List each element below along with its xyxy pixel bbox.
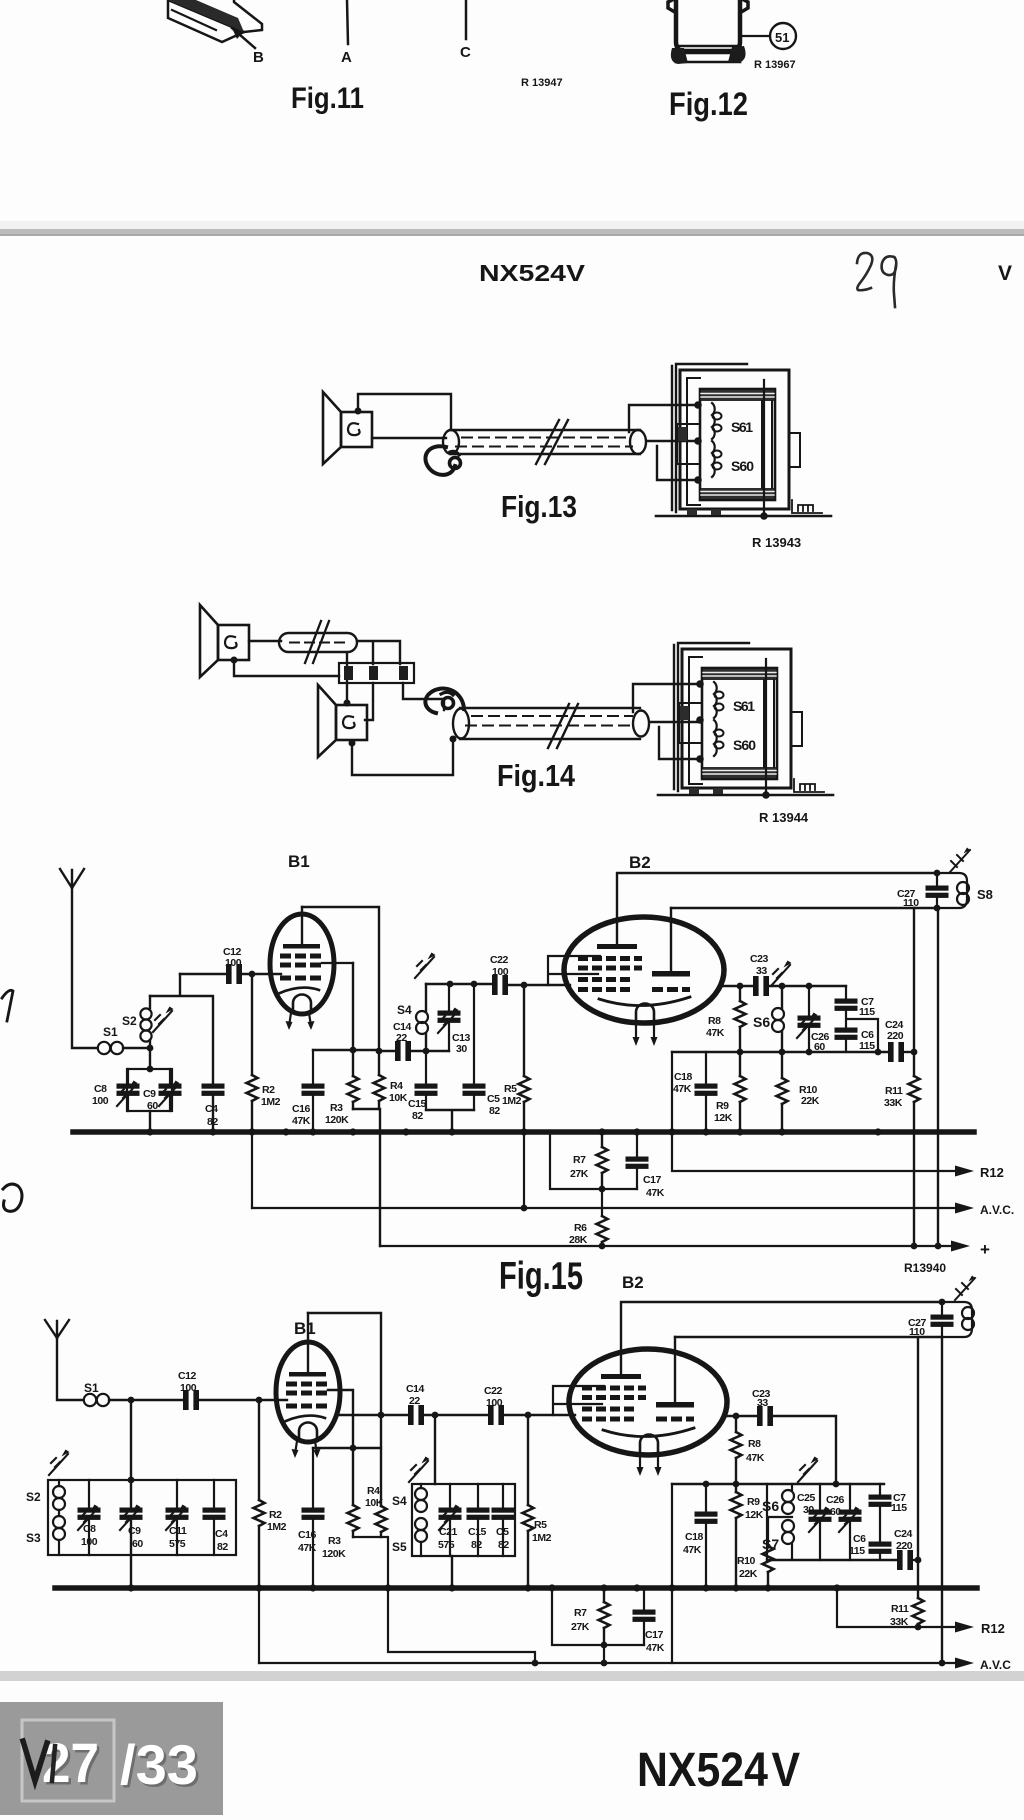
coil S4 (420, 1484, 422, 1488)
wire cable to transformer middle (647, 440, 698, 442)
svg-text:R3: R3 (330, 1102, 343, 1114)
screen rail (672, 1483, 884, 1485)
svg-text:B1: B1 (288, 852, 310, 871)
svg-text:C5: C5 (496, 1526, 509, 1538)
svg-text:47K: 47K (298, 1542, 317, 1554)
page counter panel (0, 1702, 223, 1815)
wire B2 anode to C23 (720, 985, 752, 987)
grid2 stub and riser (313, 1390, 381, 1448)
wire to C12 (180, 973, 226, 975)
svg-text:C5: C5 (487, 1093, 500, 1105)
capacitor C7 (879, 1484, 881, 1495)
wire C22 to grid B2 (504, 1414, 575, 1416)
svg-text:47K: 47K (646, 1642, 665, 1654)
wire speaker bottom (372, 437, 446, 439)
svg-text:R11: R11 (885, 1085, 903, 1097)
capacitor C17 (636, 1132, 638, 1189)
svg-text:12K: 12K (714, 1112, 733, 1124)
anode wire to C14 (336, 1414, 408, 1416)
resistor R9 (739, 1052, 741, 1131)
svg-text:C22: C22 (490, 954, 509, 966)
svg-text:R11: R11 (891, 1603, 909, 1615)
capacitor C25 (trimmer) (819, 1484, 821, 1560)
wire box to bus (149, 1111, 151, 1131)
wire R7/C17 return loop (550, 1132, 637, 1189)
strain-relief loop (425, 688, 464, 713)
svg-text:220: 220 (887, 1030, 904, 1042)
svg-text:B2: B2 (629, 853, 651, 872)
interconnect cable (short) (279, 633, 357, 652)
svg-text:Fig.14: Fig.14 (497, 758, 576, 793)
node speaker top (355, 408, 362, 415)
AVC rail (259, 1662, 956, 1664)
svg-text:R6: R6 (574, 1222, 587, 1234)
svg-text:82: 82 (471, 1539, 482, 1551)
svg-text:S3: S3 (26, 1531, 41, 1545)
wire cable to transformer top (633, 684, 700, 712)
wire cable to transformer bottom (657, 446, 698, 480)
svg-text:R3: R3 (328, 1535, 341, 1547)
valve retainer cup (cut off at top) (676, 0, 740, 52)
svg-text:NX524 V: NX524 V (637, 1744, 800, 1797)
capacitor C6 (879, 1506, 881, 1542)
wire C23 to IF tank (770, 985, 846, 987)
svg-text:115: 115 (849, 1545, 865, 1557)
ground bus (55, 1585, 977, 1591)
output transformer (656, 364, 831, 520)
svg-text:100: 100 (92, 1095, 109, 1107)
svg-text:C16: C16 (292, 1103, 311, 1115)
svg-text:S1: S1 (103, 1025, 118, 1039)
capacitor C13 (trimmer) (448, 984, 450, 1051)
svg-text:R8: R8 (708, 1015, 721, 1027)
svg-text:B2: B2 (622, 1273, 644, 1292)
capacitor C16 (312, 1050, 314, 1131)
svg-text:82: 82 (217, 1541, 228, 1553)
leader line to label C (465, 0, 468, 39)
svg-text:C9: C9 (128, 1525, 141, 1537)
svg-text:60: 60 (830, 1506, 841, 1518)
capacitor C9 (variable) (120, 1508, 142, 1519)
main tuning line (130, 1400, 132, 1585)
riser to C24 node (917, 1337, 919, 1560)
capacitor C8 (variable) (127, 1069, 129, 1111)
svg-text:C8: C8 (94, 1083, 107, 1095)
svg-text:115: 115 (859, 1040, 875, 1052)
svg-text:47K: 47K (673, 1083, 692, 1095)
ground bus (73, 1129, 974, 1135)
trimmer arrow on S8 (950, 850, 970, 872)
tank bottom rail (767, 1559, 897, 1561)
resistor R2 (251, 974, 253, 1131)
node speaker2 top (344, 700, 351, 707)
svg-text:S2: S2 (26, 1490, 41, 1504)
wire C22 to grid B2 (508, 984, 570, 986)
node grid B1 (249, 971, 256, 978)
aerial tank box (48, 1480, 236, 1555)
svg-text:22: 22 (396, 1032, 407, 1044)
coil S6 (791, 1484, 793, 1490)
resistor R7 (601, 1132, 603, 1189)
capacitor C27 (936, 873, 938, 908)
handwritten page number 29 (857, 253, 896, 307)
svg-text:1M2: 1M2 (267, 1521, 287, 1533)
wire +HT riser (937, 908, 939, 1246)
svg-text:60: 60 (147, 1100, 158, 1112)
wire tank to bus (451, 1556, 453, 1585)
svg-text:B: B (253, 49, 264, 66)
trimmer arrow over S2 (49, 1450, 70, 1476)
wire anode rail (671, 907, 937, 909)
riser to AVC rail (941, 1337, 943, 1663)
svg-text:C8: C8 (83, 1523, 96, 1535)
node antenna/tank (147, 1045, 154, 1052)
svg-text:100: 100 (225, 957, 242, 969)
bus junction dots (146, 1128, 881, 1135)
svg-text:12K: 12K (745, 1509, 764, 1521)
svg-text:27: 27 (42, 1731, 99, 1794)
resistor R10 (781, 1052, 783, 1131)
wire cable end to strip (347, 641, 400, 703)
svg-text:C24: C24 (894, 1528, 913, 1540)
cable break marks (305, 621, 329, 663)
wire B2 top to oscillator coil (617, 873, 937, 947)
R12 rail (837, 1588, 956, 1627)
svg-text:B1: B1 (294, 1319, 316, 1338)
coil S5 (415, 1518, 427, 1530)
handwritten tick V over counter (23, 1741, 47, 1781)
trimmer arrow on S4 (415, 953, 436, 979)
riser to IF tank (434, 1415, 436, 1484)
svg-text:C23: C23 (750, 953, 769, 965)
svg-text:115: 115 (859, 1006, 875, 1018)
svg-text:Fig.12: Fig.12 (669, 86, 748, 122)
capacitor C9 (variable) (169, 1069, 171, 1111)
svg-text:R 13947: R 13947 (521, 77, 563, 89)
wire R3/R4 bottom to + (353, 1109, 380, 1246)
antenna (60, 869, 97, 1048)
svg-text:C9: C9 (143, 1088, 156, 1100)
svg-text:C15: C15 (408, 1098, 427, 1110)
wire R2 tap to AVC rail (251, 1132, 253, 1208)
svg-text:C11: C11 (169, 1525, 187, 1537)
capacitor C17 (643, 1588, 645, 1645)
coil S2 (58, 1480, 60, 1516)
capacitor C7 (845, 986, 847, 999)
svg-text:82: 82 (489, 1105, 500, 1117)
trimmer arrow over S4 (409, 1457, 430, 1483)
AVC rail (252, 1207, 956, 1209)
chassis corner fragment (top left, cut off) (168, 0, 244, 42)
wire cable to transformer middle (650, 721, 700, 723)
resistor R9 (735, 1484, 737, 1585)
svg-text:33K: 33K (884, 1097, 903, 1109)
resistor R5 (523, 985, 525, 1131)
antenna (45, 1320, 83, 1400)
svg-text:S1: S1 (84, 1381, 99, 1395)
trimmer arrow near C23 (771, 961, 792, 987)
capacitor C23 (754, 977, 769, 996)
svg-text:S4: S4 (392, 1494, 407, 1508)
coil S6 (781, 986, 783, 1052)
resistor R11 (917, 1560, 919, 1627)
wire speaker1 to cable (249, 640, 281, 642)
svg-text:NX524V: NX524V (479, 260, 586, 286)
svg-text:28K: 28K (569, 1234, 588, 1246)
svg-text:R7: R7 (574, 1607, 587, 1619)
svg-text:82: 82 (207, 1116, 218, 1128)
wire S1 to node (123, 1047, 150, 1049)
wire B1 anode top feed (302, 907, 379, 1075)
svg-text:R8: R8 (748, 1438, 761, 1450)
svg-text:575: 575 (169, 1538, 186, 1550)
loudspeaker 2 (318, 685, 367, 757)
svg-text:33: 33 (756, 965, 767, 977)
svg-text:115: 115 (891, 1502, 907, 1514)
wire C12 to grid B1 (242, 973, 281, 975)
svg-text:C15: C15 (468, 1526, 487, 1538)
svg-text:R13940: R13940 (904, 1261, 946, 1275)
svg-text:R9: R9 (716, 1100, 729, 1112)
wire strip to main cable (403, 683, 444, 710)
svg-text:1M2: 1M2 (532, 1532, 552, 1544)
svg-text:47K: 47K (683, 1544, 702, 1556)
tank box C8/C9 (149, 1048, 151, 1069)
svg-text:47K: 47K (292, 1115, 311, 1127)
wire R3/R4 to lower rail (353, 1537, 535, 1663)
svg-text:C18: C18 (685, 1531, 704, 1543)
svg-text:220: 220 (896, 1540, 913, 1552)
cable break marks (536, 420, 568, 464)
coil S1 (84, 1394, 96, 1406)
svg-text:/33: /33 (120, 1733, 198, 1796)
wire anode to C23 (724, 1415, 757, 1417)
capacitor C18 (705, 1484, 707, 1585)
+HT rail (380, 1245, 952, 1247)
cup base (679, 45, 737, 48)
svg-text:R4: R4 (390, 1080, 403, 1092)
capacitor C26 (trimmer) (849, 1484, 851, 1560)
svg-text:C18: C18 (674, 1071, 693, 1083)
svg-text:S6: S6 (762, 1498, 779, 1514)
wire S2 top / C4 feed (150, 974, 213, 1084)
capacitor C4 (213, 1480, 215, 1555)
cable break marks (548, 704, 578, 748)
wire C15/C5 to bus (426, 1110, 474, 1131)
wire speaker top loop (358, 394, 451, 429)
leader line to balloon 51 (742, 35, 770, 37)
wire R5 tap to AVC rail (523, 1132, 525, 1208)
resistor R7 (603, 1588, 605, 1645)
resistor R2 (258, 1400, 260, 1585)
svg-text:47K: 47K (646, 1187, 665, 1199)
node speaker1 bottom (231, 657, 238, 664)
output transformer (658, 643, 833, 799)
leader line to label A (347, 0, 348, 44)
svg-text:47K: 47K (746, 1452, 765, 1464)
svg-text:C14: C14 (406, 1383, 425, 1395)
capacitor C14 (396, 1042, 411, 1061)
svg-text:R5: R5 (534, 1519, 547, 1531)
capacitor C8 (variable) (88, 1480, 90, 1555)
capacitor C6 (835, 1028, 857, 1039)
coil S2 (149, 996, 151, 1048)
svg-text:C16: C16 (298, 1529, 317, 1541)
svg-text:S4: S4 (397, 1003, 412, 1017)
svg-text:R 13943: R 13943 (752, 535, 801, 550)
svg-text:100: 100 (81, 1536, 98, 1548)
wire IF tank top (426, 983, 492, 985)
anode rail (675, 1336, 942, 1338)
svg-text:C17: C17 (643, 1174, 662, 1186)
B2 cathode arc and heater (599, 997, 690, 1006)
resistor R3 (352, 1448, 354, 1537)
B2 anode lead (670, 908, 672, 971)
capacitor C15 (425, 1051, 427, 1084)
resistor R3 (313, 963, 380, 1109)
svg-text:30: 30 (456, 1043, 467, 1055)
resistor R8 (739, 986, 741, 1052)
capacitor C27 (941, 1302, 943, 1337)
svg-text:22K: 22K (739, 1568, 758, 1580)
wire speaker2 bottom to cable (352, 740, 453, 775)
wire C7/C6 node (846, 1010, 878, 1052)
capacitor C15 (477, 1484, 479, 1556)
svg-text:R5: R5 (504, 1083, 517, 1095)
wire screen rail (672, 1051, 888, 1053)
svg-text:22: 22 (409, 1395, 420, 1407)
capacitor C12 (227, 965, 242, 984)
svg-text:R10: R10 (737, 1555, 756, 1567)
resistor R6 (597, 1216, 608, 1242)
svg-text:R2: R2 (262, 1084, 275, 1096)
svg-text:R 13944: R 13944 (759, 810, 809, 825)
wire B2 top to oscillator coil (621, 1302, 942, 1377)
svg-text:C21: C21 (439, 1526, 458, 1538)
svg-text:1M2: 1M2 (502, 1095, 522, 1107)
svg-text:27K: 27K (571, 1621, 590, 1633)
wire R2 tap to AVC (258, 1588, 260, 1663)
tank box edge (766, 1484, 768, 1560)
R7/C17 return loop (552, 1588, 644, 1645)
capacitor C12 (184, 1391, 199, 1410)
svg-text:30: 30 (803, 1504, 814, 1516)
svg-text:82: 82 (498, 1539, 509, 1551)
capacitor C24 (898, 1551, 913, 1570)
svg-text:100: 100 (180, 1382, 197, 1394)
capacitor C24 (889, 1043, 904, 1062)
resistor R4 (376, 1506, 387, 1532)
wire R7 to AVC rail (601, 1189, 603, 1208)
svg-text:47K: 47K (706, 1027, 725, 1039)
svg-text:1M2: 1M2 (261, 1096, 281, 1108)
node speaker2 bottom (349, 740, 356, 747)
main cable sheath (460, 708, 640, 739)
wire C12 to grid B1 (199, 1399, 287, 1401)
handwritten hook mark left margin (3, 1184, 22, 1211)
svg-text:C26: C26 (826, 1494, 845, 1506)
node cable bottom (450, 736, 457, 743)
capacitor C21 (variable) (449, 1484, 451, 1556)
trimmer arrow on S8 (955, 1278, 975, 1300)
svg-text:S2: S2 (122, 1014, 137, 1028)
wire anode to C14 (379, 1050, 395, 1052)
coil S8 (942, 1302, 972, 1337)
loudspeaker 1 (200, 605, 249, 677)
wire S1 to C12 (109, 1399, 183, 1401)
capacitor C14 (409, 1406, 424, 1425)
trimmer arrow over S6 (798, 1457, 819, 1483)
svg-text:10K: 10K (389, 1092, 408, 1104)
coil S1 (98, 1042, 110, 1054)
wire speaker1 bottom to strip (234, 660, 339, 676)
svg-text:S8: S8 (977, 887, 993, 902)
svg-text:R12: R12 (980, 1165, 1004, 1180)
svg-text:C17: C17 (645, 1629, 664, 1641)
coil S7 (782, 1520, 794, 1532)
svg-text:R 13967: R 13967 (754, 59, 796, 71)
svg-text:C: C (460, 44, 471, 61)
capacitor C5 (473, 984, 475, 1084)
wire R11 riser (913, 908, 915, 1076)
svg-text:C12: C12 (178, 1370, 197, 1382)
svg-text:82: 82 (412, 1110, 423, 1122)
svg-text:C6: C6 (853, 1533, 866, 1545)
svg-text:R7: R7 (573, 1154, 586, 1166)
svg-text:R2: R2 (269, 1509, 282, 1521)
capacitor C16 (312, 1448, 314, 1585)
terminal strip (339, 663, 414, 683)
svg-text:Fig.11: Fig.11 (291, 82, 364, 115)
capacitor C22 (493, 976, 508, 995)
grid bracket B2 (553, 1386, 604, 1415)
svg-text:Fig.15: Fig.15 (499, 1255, 583, 1298)
wire C14 to tank S4 (411, 1050, 449, 1052)
svg-text:R9: R9 (747, 1496, 760, 1508)
capacitor C11 (variable) (176, 1480, 178, 1555)
svg-text:120K: 120K (322, 1548, 346, 1560)
resistor R10 (763, 1546, 774, 1572)
resistor R4 (374, 1075, 385, 1101)
svg-text:27K: 27K (570, 1168, 589, 1180)
svg-text:A.V.C.: A.V.C. (980, 1203, 1014, 1217)
svg-text:33: 33 (757, 1397, 768, 1409)
capacitor C4 (202, 1084, 224, 1095)
coil S3 (58, 1540, 60, 1555)
cable sheath (450, 430, 640, 454)
svg-text:S6: S6 (753, 1014, 770, 1030)
handwritten margin mark 1 (2, 990, 13, 1021)
coil S8 (937, 873, 967, 908)
svg-text:575: 575 (438, 1539, 455, 1551)
svg-text:120K: 120K (325, 1114, 349, 1126)
node anode wire (376, 1048, 383, 1055)
wire screen to R12 (672, 1052, 956, 1171)
svg-text:C4: C4 (205, 1103, 218, 1115)
svg-text:51: 51 (775, 30, 789, 45)
svg-text:60: 60 (132, 1538, 143, 1550)
capacitor C26 (trimmer) (808, 986, 810, 1052)
svg-text:R4: R4 (367, 1485, 380, 1497)
grid2 stub into B1 (322, 962, 353, 964)
wire cable to transformer bottom (659, 727, 700, 759)
svg-text:A: A (341, 49, 352, 66)
coil S4 (425, 984, 427, 1051)
resistor R5 (527, 1415, 529, 1585)
svg-text:S5: S5 (392, 1540, 407, 1554)
svg-text:V: V (998, 262, 1012, 285)
svg-text:+: + (980, 1240, 990, 1259)
